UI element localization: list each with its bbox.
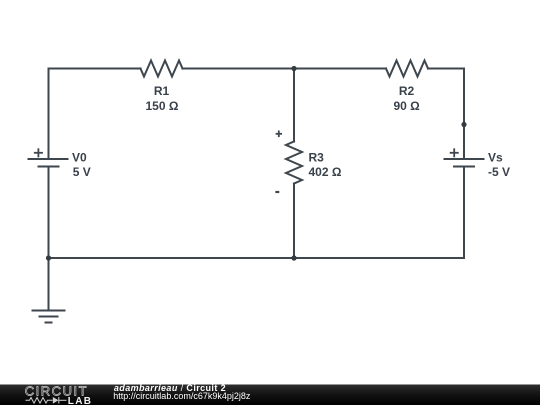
node dot top middle — [291, 66, 296, 71]
wire right lower vertical — [463, 167, 465, 259]
label V0 — [72, 151, 91, 180]
svg-text:90 Ω: 90 Ω — [393, 99, 420, 113]
svg-text:150 Ω: 150 Ω — [146, 99, 179, 113]
voltage source Vs — [445, 159, 484, 167]
resistor R1 — [141, 61, 183, 77]
ground — [33, 311, 65, 323]
wire left vertical — [48, 69, 50, 160]
resistor R2 — [386, 61, 428, 77]
svg-text:R1: R1 — [154, 84, 170, 98]
logo squiggle resistor and diode — [26, 397, 67, 404]
logo diode triangle — [53, 397, 59, 404]
svg-text:http://circuitlab.com/c67k9k4p: http://circuitlab.com/c67k9k4pj2j8z — [113, 391, 251, 401]
voltage source V0 — [29, 159, 68, 167]
wire left lower vertical — [48, 167, 50, 259]
svg-text:-5 V: -5 V — [488, 165, 510, 179]
wire top-middle — [183, 68, 387, 70]
svg-text:402 Ω: 402 Ω — [309, 165, 342, 179]
plus sign R3 — [276, 131, 282, 138]
svg-text:V0: V0 — [72, 151, 87, 165]
svg-text:Vs: Vs — [488, 151, 503, 165]
wire middle upper vertical — [293, 69, 295, 142]
node dot bottom middle — [291, 255, 296, 260]
wire middle lower vertical — [293, 184, 295, 259]
minus sign R3 — [275, 191, 279, 193]
label Vs — [488, 151, 510, 180]
svg-text:R2: R2 — [399, 84, 415, 98]
wire ground stem — [48, 258, 50, 311]
plus sign Vs — [450, 148, 459, 157]
wire top-right — [428, 68, 464, 70]
wire right upper vertical — [463, 69, 465, 160]
label R3 — [309, 151, 342, 180]
label R1 — [146, 84, 179, 113]
svg-text:R3: R3 — [309, 151, 325, 165]
svg-text:5 V: 5 V — [73, 165, 91, 179]
label R2 — [393, 84, 420, 113]
wire bottom horizontal — [49, 257, 465, 259]
plus sign V0 — [34, 148, 43, 157]
wire top-left horizontal — [49, 68, 141, 70]
node dot right — [461, 122, 466, 127]
resistor R3 — [286, 142, 302, 184]
node dot bottom left — [46, 255, 51, 260]
svg-text:LAB: LAB — [68, 396, 92, 405]
